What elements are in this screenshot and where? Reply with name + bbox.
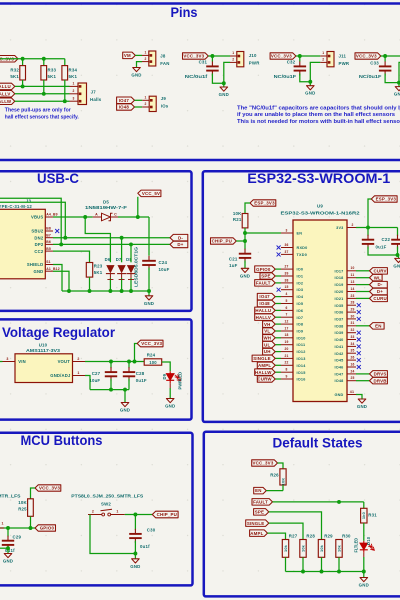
wire SINGLE bbox=[275, 357, 281, 359]
svg-text:GND: GND bbox=[33, 269, 43, 274]
svg-text:GND/ADJ: GND/ADJ bbox=[50, 373, 71, 378]
junction C29 gnd bbox=[6, 546, 10, 550]
svg-text:EN: EN bbox=[297, 232, 303, 236]
svg-text:GND: GND bbox=[130, 564, 140, 569]
connector J8 FAN bbox=[142, 54, 149, 56]
wire D- bbox=[356, 284, 370, 286]
junction C32 top bbox=[298, 54, 302, 58]
svg-text:10k: 10k bbox=[300, 544, 305, 552]
svg-text:2: 2 bbox=[232, 58, 234, 62]
capacitor C28 0u1F bbox=[128, 362, 130, 369]
svg-text:IO4: IO4 bbox=[297, 295, 304, 299]
svg-text:1: 1 bbox=[116, 510, 118, 514]
resistor R23 5K1 bbox=[86, 263, 92, 278]
junction EN node bbox=[243, 231, 247, 235]
wire CURV bbox=[356, 270, 370, 272]
svg-text:IO13: IO13 bbox=[297, 357, 306, 361]
svg-text:CHIP_PU: CHIP_PU bbox=[157, 512, 177, 517]
svg-text:IO48: IO48 bbox=[259, 301, 270, 306]
svg-text:GND: GND bbox=[3, 559, 13, 564]
svg-text:GPIO0: GPIO0 bbox=[256, 267, 271, 272]
svg-text:R29: R29 bbox=[324, 533, 333, 538]
junction C28 top bbox=[127, 360, 131, 364]
no-connect IO41 bbox=[357, 344, 361, 348]
ground below C31 bbox=[223, 83, 225, 87]
svg-text:U9: U9 bbox=[317, 204, 323, 209]
svg-text:3: 3 bbox=[73, 96, 75, 100]
capacitor C31 NC/0u1f bbox=[211, 56, 213, 62]
wire VBUS bbox=[53, 216, 93, 218]
wire VBUS jog to ESD diode D6 bbox=[85, 217, 110, 262]
svg-text:2: 2 bbox=[322, 58, 324, 62]
svg-text:17: 17 bbox=[284, 326, 288, 330]
svg-text:26: 26 bbox=[350, 356, 354, 360]
net label VH bbox=[263, 321, 276, 328]
svg-text:0u1F: 0u1F bbox=[376, 245, 387, 250]
svg-text:D+: D+ bbox=[377, 289, 383, 294]
svg-text:ESP_3V3: ESP_3V3 bbox=[376, 197, 397, 202]
wire SHIELD to ground rail bbox=[53, 265, 62, 292]
svg-text:34: 34 bbox=[350, 342, 354, 346]
svg-text:36: 36 bbox=[284, 243, 288, 247]
svg-text:HALLV: HALLV bbox=[256, 315, 271, 320]
no-connect IO37 bbox=[357, 317, 361, 321]
svg-text:TXD0: TXD0 bbox=[297, 253, 308, 257]
svg-text:19: 19 bbox=[284, 340, 288, 344]
junction HALLU/R32 bbox=[21, 84, 25, 88]
svg-text:Default States: Default States bbox=[273, 436, 363, 451]
svg-text:HALLU: HALLU bbox=[255, 308, 271, 313]
U9 pin 15 IO3 bbox=[281, 289, 293, 291]
svg-text:IO47: IO47 bbox=[334, 372, 343, 376]
wire SW2 to CHIP_PU bbox=[125, 514, 153, 516]
ground below C30 bbox=[134, 554, 136, 559]
svg-text:C30: C30 bbox=[147, 528, 156, 533]
svg-text:R28: R28 bbox=[306, 533, 315, 538]
svg-text:PWR: PWR bbox=[339, 61, 350, 66]
svg-text:21: 21 bbox=[284, 354, 288, 358]
svg-text:R33: R33 bbox=[48, 68, 57, 73]
U9 pin 5 IO5 bbox=[281, 303, 293, 305]
power label VCC_3V3 (edge) bbox=[355, 53, 381, 59]
net label DRVB bbox=[370, 377, 388, 384]
wire VOUT rail bbox=[85, 361, 144, 363]
svg-text:1uF: 1uF bbox=[229, 263, 237, 268]
no-connect IO39 bbox=[357, 331, 361, 335]
svg-text:MCU Buttons: MCU Buttons bbox=[21, 433, 103, 448]
svg-text:IO20: IO20 bbox=[334, 290, 343, 294]
svg-text:IO14: IO14 bbox=[297, 364, 307, 368]
svg-text:VCC_3V3: VCC_3V3 bbox=[253, 461, 274, 466]
svg-text:10K: 10K bbox=[18, 500, 27, 505]
wire C31 to J10 pin2 bbox=[224, 62, 230, 83]
svg-text:R26: R26 bbox=[270, 472, 279, 477]
svg-text:SINGLE: SINGLE bbox=[253, 356, 271, 361]
wire WH bbox=[275, 337, 281, 339]
U9 pin 16 IO46 bbox=[347, 366, 356, 368]
svg-text:0u1f: 0u1f bbox=[140, 544, 150, 549]
no-connect IO40 bbox=[357, 338, 361, 342]
ground below C29 bbox=[4, 554, 12, 558]
svg-text:VIN: VIN bbox=[18, 359, 26, 364]
U9 pin 8 IO15 bbox=[281, 371, 293, 373]
svg-text:GND: GND bbox=[334, 393, 343, 397]
svg-text:PWR: PWR bbox=[249, 61, 260, 66]
wire AMPL bbox=[275, 364, 281, 366]
svg-text:1: 1 bbox=[322, 51, 324, 55]
svg-text:IO15: IO15 bbox=[297, 371, 306, 375]
IC U10 AMS1117-3V3 bbox=[15, 354, 73, 383]
wire EN to chip bbox=[245, 232, 281, 234]
svg-text:CURV: CURV bbox=[374, 268, 387, 273]
section frame: USB-C bbox=[0, 171, 192, 311]
svg-text:10k: 10k bbox=[283, 544, 288, 552]
junction DN2/top wire bbox=[63, 236, 67, 240]
svg-text:1: 1 bbox=[145, 51, 147, 55]
svg-text:GND: GND bbox=[357, 404, 367, 409]
svg-text:VCC_3V3: VCC_3V3 bbox=[183, 54, 204, 59]
wire UL bbox=[275, 344, 281, 346]
no-connect RXD0 bbox=[277, 246, 281, 250]
svg-text:IO45: IO45 bbox=[334, 359, 343, 363]
svg-text:25: 25 bbox=[350, 376, 354, 380]
power label VCC_3V3 (J11) bbox=[270, 53, 296, 59]
ground default states bbox=[363, 572, 365, 578]
svg-text:J9: J9 bbox=[161, 96, 167, 101]
svg-text:IO21: IO21 bbox=[334, 297, 343, 301]
junction VCC_5V bbox=[136, 215, 140, 219]
net label IO48 bbox=[117, 104, 135, 110]
svg-text:GND: GND bbox=[131, 73, 141, 78]
net label FAULT bbox=[255, 280, 276, 287]
svg-text:10K: 10K bbox=[280, 478, 285, 486]
svg-text:2: 2 bbox=[351, 223, 353, 227]
capacitor C30 0u1f bbox=[134, 515, 136, 530]
svg-text:30: 30 bbox=[350, 314, 354, 318]
svg-text:C: C bbox=[114, 213, 117, 217]
svg-text:10K: 10K bbox=[233, 211, 242, 216]
wire C32 to J11 pin2 bbox=[310, 62, 320, 81]
wire SW2 left to gnd bbox=[90, 515, 135, 554]
net label SPE bbox=[254, 509, 269, 515]
svg-text:B5: B5 bbox=[46, 247, 51, 251]
svg-text:31: 31 bbox=[350, 321, 354, 325]
U9 pin 32 IO39 bbox=[347, 332, 356, 334]
svg-text:2: 2 bbox=[145, 102, 147, 106]
U9 pin 34 IO41 bbox=[347, 345, 356, 347]
net label SINGLE bbox=[246, 520, 269, 527]
ground rail regulator bbox=[90, 389, 129, 391]
resistor R24 100 bbox=[144, 359, 162, 365]
svg-text:R24: R24 bbox=[147, 353, 156, 358]
wire VCC_3V3 to R26 bbox=[278, 463, 284, 469]
net label IO48 bbox=[257, 300, 275, 307]
wire VL bbox=[275, 330, 281, 332]
svg-text:32: 32 bbox=[350, 328, 354, 332]
net label HALLU bbox=[255, 307, 276, 314]
resistor R34 bbox=[64, 59, 66, 66]
svg-text:RXD0: RXD0 bbox=[297, 246, 308, 250]
svg-text:IO17: IO17 bbox=[334, 269, 343, 273]
ground below J8 bbox=[133, 68, 141, 72]
wire J8 pin2 to ground bbox=[137, 62, 143, 68]
svg-text:IO42: IO42 bbox=[334, 352, 343, 356]
SW1 pin 1 stub bbox=[0, 527, 4, 529]
svg-text:10: 10 bbox=[350, 266, 354, 270]
net label D+ bbox=[170, 241, 188, 248]
no-connect TXD0 bbox=[277, 252, 281, 256]
junction rail/GND pin bbox=[67, 289, 71, 293]
resistor R25 10K (button pullup) bbox=[28, 499, 34, 517]
svg-text:10k: 10k bbox=[336, 544, 341, 552]
net label EN bbox=[254, 487, 267, 494]
svg-text:R25: R25 bbox=[18, 506, 27, 511]
svg-text:Voltage Regulator: Voltage Regulator bbox=[2, 325, 116, 340]
wire SINGLE row bbox=[269, 523, 303, 539]
section frame: MCU Buttons bbox=[0, 433, 193, 586]
wire DN1 entering from left bbox=[0, 198, 61, 244]
U9 pin 25 IO48 bbox=[347, 380, 356, 382]
power label VCC_3V3 (J10) bbox=[183, 53, 209, 59]
junction rail/R25 bbox=[88, 289, 92, 293]
junction DP2/D8 bbox=[129, 242, 133, 246]
svg-text:10k: 10k bbox=[319, 544, 324, 552]
svg-text:SHIELD: SHIELD bbox=[27, 262, 44, 267]
power label VCC_3V3 (default states) bbox=[252, 460, 278, 466]
svg-text:37: 37 bbox=[284, 250, 288, 254]
svg-text:VCC_3V3: VCC_3V3 bbox=[356, 54, 377, 59]
svg-text:R31: R31 bbox=[368, 513, 377, 518]
svg-text:U10: U10 bbox=[39, 342, 48, 347]
junction rail/R29 bbox=[320, 570, 324, 574]
svg-text:3V3: 3V3 bbox=[336, 226, 343, 230]
svg-text:6: 6 bbox=[285, 306, 287, 310]
svg-text:WL: WL bbox=[374, 275, 381, 280]
wire HALLV bbox=[15, 93, 70, 95]
junction rail/C24 bbox=[147, 289, 151, 293]
net label EN bbox=[370, 323, 385, 330]
svg-text:IO12: IO12 bbox=[297, 350, 306, 354]
svg-text:2: 2 bbox=[77, 357, 79, 361]
no-connect IO42 bbox=[357, 351, 361, 355]
svg-text:IO48: IO48 bbox=[334, 379, 343, 383]
wire GND/ADJ to rail bbox=[85, 376, 90, 390]
svg-text:23: 23 bbox=[350, 294, 354, 298]
svg-text:GND: GND bbox=[219, 92, 229, 97]
svg-text:R32: R32 bbox=[10, 68, 19, 73]
junction FAULT/R30 bbox=[337, 500, 341, 504]
ground below LED D9 bbox=[166, 399, 174, 403]
svg-text:IO41: IO41 bbox=[334, 345, 343, 349]
junction C31 top bbox=[210, 54, 214, 58]
net label D- bbox=[170, 234, 188, 241]
svg-text:28: 28 bbox=[350, 301, 354, 305]
net label HALLV bbox=[0, 91, 15, 98]
junction HALLW/R34 bbox=[63, 99, 67, 103]
U9 pin 10 IO17 bbox=[347, 270, 356, 272]
net label SINGLE bbox=[252, 355, 275, 362]
svg-text:C28: C28 bbox=[136, 371, 145, 376]
power label VCC_5V bbox=[137, 197, 139, 217]
ground below C32 bbox=[309, 82, 311, 86]
svg-text:1: 1 bbox=[232, 51, 234, 55]
U9 pin 4 IO4 bbox=[281, 296, 293, 298]
svg-text:IO39: IO39 bbox=[334, 331, 343, 335]
junction R25b/GPIO0 bbox=[29, 526, 33, 530]
junction rail/R30 bbox=[337, 570, 341, 574]
svg-text:D-: D- bbox=[377, 282, 382, 287]
svg-text:VCC_3V3: VCC_3V3 bbox=[271, 54, 292, 59]
svg-text:D5: D5 bbox=[103, 199, 109, 204]
svg-text:14: 14 bbox=[350, 287, 354, 291]
net label D- bbox=[370, 281, 388, 288]
wire GND pin bbox=[356, 395, 362, 400]
svg-text:2: 2 bbox=[145, 57, 147, 61]
U9 pin 2 3V3 bbox=[347, 227, 356, 229]
no-connect IO3 bbox=[277, 288, 281, 292]
U9 pin 39 IO1 bbox=[281, 275, 293, 277]
U9 pin 3 EN bbox=[281, 232, 293, 234]
net label CURW bbox=[257, 376, 275, 382]
svg-text:HALLW: HALLW bbox=[255, 370, 272, 375]
no-connect IO35 bbox=[357, 303, 361, 307]
svg-text:R30: R30 bbox=[342, 533, 351, 538]
svg-text:5K1: 5K1 bbox=[48, 74, 57, 79]
power label ESP_3V3 (left) bbox=[250, 200, 276, 206]
wire IO47 to J9 bbox=[135, 99, 143, 101]
svg-text:2: 2 bbox=[73, 89, 75, 93]
svg-text:A1_B12: A1_B12 bbox=[46, 267, 60, 271]
capacitor C33 NC/0u1F bbox=[384, 56, 386, 62]
capacitor C29 0u1f bbox=[7, 528, 9, 537]
svg-text:Halls: Halls bbox=[90, 97, 102, 102]
wire AMPL row bbox=[268, 533, 286, 539]
svg-text:C22: C22 bbox=[382, 237, 391, 242]
junction C27 top bbox=[109, 360, 113, 364]
svg-text:IO38: IO38 bbox=[334, 324, 343, 328]
svg-text:DN2: DN2 bbox=[34, 235, 43, 240]
ground below C21 bbox=[241, 268, 249, 272]
svg-text:PTS8L0_SJM_250_SMTR_LFS: PTS8L0_SJM_250_SMTR_LFS bbox=[0, 493, 21, 498]
svg-text:5: 5 bbox=[285, 299, 287, 303]
svg-text:SBU2: SBU2 bbox=[31, 229, 43, 234]
svg-text:FLTLED: FLTLED bbox=[353, 538, 358, 553]
svg-text:R34: R34 bbox=[69, 68, 78, 73]
svg-text:VCC_5V: VCC_5V bbox=[142, 191, 160, 196]
no-connect IO46 bbox=[357, 365, 361, 369]
svg-text:DRVS: DRVS bbox=[374, 372, 387, 377]
net label HALLV bbox=[255, 314, 276, 321]
junction DN2/D7 bbox=[120, 236, 124, 240]
svg-text:CC2: CC2 bbox=[34, 249, 43, 254]
capacitor C32 NC/0u1F bbox=[299, 56, 301, 62]
svg-text:3: 3 bbox=[6, 357, 8, 361]
svg-text:18: 18 bbox=[284, 333, 288, 337]
wire ESP_3V3 to R21 bbox=[245, 203, 250, 214]
svg-text:100: 100 bbox=[149, 360, 157, 365]
svg-text:A4_B9: A4_B9 bbox=[46, 213, 58, 217]
net label HALLU bbox=[0, 83, 15, 90]
svg-text:9: 9 bbox=[285, 374, 287, 378]
junction VCC_3V3 tap bbox=[133, 360, 137, 364]
svg-text:C24: C24 bbox=[159, 260, 168, 265]
wire DN2 to label D- bbox=[53, 237, 170, 239]
svg-text:CURW: CURW bbox=[257, 377, 272, 382]
net label CHIP_PU bbox=[211, 238, 237, 244]
svg-text:IO47: IO47 bbox=[119, 98, 130, 103]
svg-text:IO18: IO18 bbox=[334, 276, 343, 280]
svg-text:1: 1 bbox=[145, 96, 147, 100]
wire VCC_3V3 to R25b bbox=[31, 488, 36, 499]
wire SW1 gnd stub bbox=[0, 547, 8, 549]
no-connect IO36 bbox=[357, 310, 361, 314]
wire IO48 to J9 bbox=[135, 106, 143, 108]
U10 pin 3 VIN bbox=[0, 361, 3, 363]
net label D+ bbox=[370, 288, 388, 295]
wire UH bbox=[275, 351, 281, 353]
capacitor at right edge bbox=[397, 228, 399, 236]
svg-text:WH: WH bbox=[263, 335, 271, 340]
svg-text:R23: R23 bbox=[94, 264, 103, 269]
junction DP2/top wire bbox=[59, 242, 63, 246]
ground rail USB-C bbox=[62, 290, 149, 292]
svg-text:C29: C29 bbox=[13, 535, 22, 540]
connector J7 Halls bbox=[70, 85, 79, 87]
junction C30 top bbox=[133, 513, 137, 517]
svg-text:20: 20 bbox=[284, 347, 288, 351]
svg-text:R27: R27 bbox=[289, 533, 298, 538]
svg-text:11: 11 bbox=[351, 273, 355, 277]
svg-text:35: 35 bbox=[350, 349, 354, 353]
net label AMPL bbox=[257, 362, 275, 369]
svg-text:13: 13 bbox=[350, 280, 354, 284]
svg-text:FAN: FAN bbox=[160, 61, 169, 66]
svg-text:CURU: CURU bbox=[373, 296, 386, 301]
svg-text:1: 1 bbox=[77, 371, 79, 375]
U9 pin 20 IO12 bbox=[281, 351, 293, 353]
no-connect IO45 bbox=[357, 358, 361, 362]
svg-text:J8: J8 bbox=[160, 53, 166, 58]
svg-text:1: 1 bbox=[2, 522, 4, 526]
junction at R32 top bbox=[21, 57, 25, 61]
svg-text:VBUS: VBUS bbox=[31, 215, 43, 220]
svg-text:PTS8L0_SJM_250_SMTR_LFS: PTS8L0_SJM_250_SMTR_LFS bbox=[71, 493, 143, 498]
svg-text:UH: UH bbox=[264, 349, 271, 354]
U9 pin 23 IO21 bbox=[347, 297, 356, 299]
junction rail/D6 bbox=[108, 289, 112, 293]
connector J3 USB-C TYPE-C-31-M-12 bbox=[0, 209, 45, 278]
svg-text:DP2: DP2 bbox=[35, 242, 44, 247]
U9 pin 37 TXD0 bbox=[281, 253, 293, 255]
net label FAULT bbox=[252, 499, 273, 506]
svg-text:1k0: 1k0 bbox=[361, 512, 366, 519]
svg-text:3: 3 bbox=[285, 228, 287, 232]
U9 pin 11 IO18 bbox=[347, 277, 356, 279]
svg-text:16: 16 bbox=[350, 362, 354, 366]
svg-text:GND: GND bbox=[359, 583, 369, 588]
svg-text:ESP32-S3-WROOM-1: ESP32-S3-WROOM-1 bbox=[247, 171, 391, 186]
wire CURU bbox=[356, 297, 370, 299]
junction J11 gnd node bbox=[308, 80, 312, 84]
wire VM to J8 bbox=[135, 54, 142, 56]
svg-text:HALLW: HALLW bbox=[0, 99, 12, 104]
U9 pin 21 IO13 bbox=[281, 357, 293, 359]
svg-text:IO5: IO5 bbox=[297, 302, 304, 306]
svg-text:C32: C32 bbox=[287, 60, 296, 65]
svg-text:B6: B6 bbox=[46, 240, 51, 244]
svg-text:AMPL: AMPL bbox=[250, 531, 263, 536]
svg-text:D-: D- bbox=[178, 235, 183, 240]
